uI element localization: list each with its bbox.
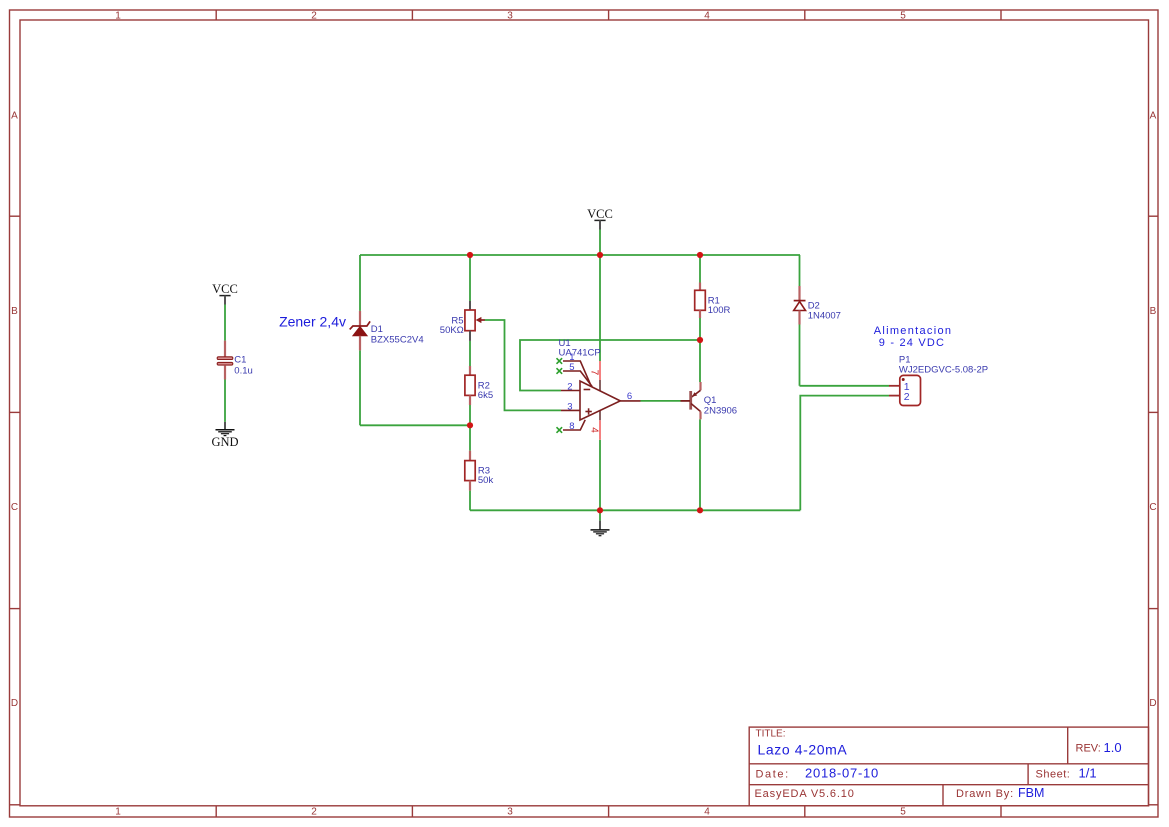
svg-text:BZX55C2V4: BZX55C2V4 — [371, 335, 424, 346]
wire bottom GND rail y=510 — [470, 509, 800, 511]
svg-text:2: 2 — [311, 807, 317, 818]
wire VCC symbol stem to rail — [599, 230, 601, 256]
svg-text:5: 5 — [900, 807, 906, 818]
svg-text:3: 3 — [567, 401, 572, 412]
svg-text:Lazo 4-20mA: Lazo 4-20mA — [758, 742, 848, 758]
op-amp U1 UA741CP — [557, 358, 641, 440]
polarity dot — [902, 378, 905, 381]
node collector/feedback — [697, 337, 703, 343]
capacitor C1 — [217, 341, 233, 422]
pin 2 lead — [561, 390, 580, 392]
svg-text:Sheet:: Sheet: — [1036, 768, 1071, 780]
pin 1 stub — [889, 385, 900, 387]
pin 6 output lead — [620, 400, 640, 402]
ground (main, below op-amp) — [591, 521, 610, 536]
node Q1/gnd rail — [697, 507, 703, 513]
emitter lead — [699, 382, 701, 390]
svg-text:GND: GND — [211, 435, 238, 449]
body — [900, 375, 921, 405]
svg-text:Q1: Q1 — [704, 395, 717, 406]
svg-text:B: B — [1150, 306, 1157, 317]
svg-text:REV:: REV: — [1076, 743, 1101, 755]
svg-text:50k: 50k — [478, 475, 494, 486]
svg-text:Date:: Date: — [756, 768, 790, 780]
svg-text:EasyEDA V5.6.10: EasyEDA V5.6.10 — [755, 788, 855, 800]
zener diode D1 — [350, 311, 370, 351]
wire ground stem — [599, 510, 601, 520]
inverting input minus — [584, 389, 591, 391]
svg-text:6: 6 — [627, 391, 632, 402]
title block — [749, 727, 1148, 806]
pin 5 lead — [563, 371, 592, 387]
svg-text:2: 2 — [904, 391, 910, 403]
svg-text:A: A — [11, 111, 18, 122]
svg-text:FBM: FBM — [1018, 786, 1044, 800]
wire opamp V+ pin7 from rail — [599, 255, 601, 361]
svg-text:0.1u: 0.1u — [234, 365, 253, 376]
wire opamp V- pin4 to gnd rail — [599, 440, 601, 511]
svg-text:2: 2 — [311, 11, 317, 22]
no-connect X pin 8 — [557, 427, 563, 433]
svg-text:5: 5 — [569, 362, 574, 373]
wire D1 corner to R2/R3 junction — [360, 424, 470, 426]
svg-text:1: 1 — [115, 11, 121, 22]
connector P1 — [889, 375, 921, 405]
node R2/R3 divider — [467, 422, 473, 428]
svg-text:1/1: 1/1 — [1079, 766, 1097, 781]
svg-text:1N4007: 1N4007 — [808, 311, 841, 322]
svg-text:3: 3 — [507, 807, 513, 818]
node VCC/top rail — [597, 252, 603, 258]
svg-text:2N3906: 2N3906 — [704, 406, 737, 417]
R5 wiper arrow — [479, 319, 485, 321]
svg-text:7: 7 — [588, 370, 599, 376]
svg-text:4: 4 — [704, 11, 710, 22]
pin 2 stub — [889, 395, 900, 397]
transistor Q1 2N3906 — [681, 382, 701, 419]
resistor R1 — [695, 283, 706, 319]
triangle body — [580, 381, 620, 420]
svg-text:D: D — [11, 698, 18, 709]
power flag VCC (C1 branch) — [212, 282, 238, 341]
svg-text:D: D — [1149, 698, 1156, 709]
svg-text:TITLE:: TITLE: — [756, 729, 786, 740]
svg-text:5: 5 — [900, 11, 906, 22]
emitter arrow — [692, 392, 697, 396]
svg-text:A: A — [1150, 111, 1157, 122]
svg-text:C1: C1 — [234, 355, 246, 366]
potentiometer R5 — [465, 301, 485, 341]
pin 1 lead — [563, 361, 591, 385]
power flag VCC (top center) — [587, 207, 613, 230]
svg-text:VCC: VCC — [587, 207, 613, 221]
wire P1 pin2 to gnd rail — [800, 396, 889, 511]
svg-text:3: 3 — [507, 11, 513, 22]
svg-text:50KΩ: 50KΩ — [440, 325, 464, 336]
base bar — [689, 391, 692, 410]
svg-text:C: C — [1149, 502, 1156, 513]
resistor R3 — [465, 451, 475, 491]
svg-text:4: 4 — [588, 427, 599, 433]
svg-text:1: 1 — [115, 807, 121, 818]
wire feedback pin2 to collector node — [520, 340, 700, 391]
node gnd stem — [597, 507, 603, 513]
base lead — [681, 400, 691, 402]
svg-text:2: 2 — [567, 381, 572, 392]
diode D2 — [794, 286, 806, 325]
wire opamp output to Q1 base — [641, 400, 681, 402]
svg-text:100R: 100R — [708, 305, 731, 316]
svg-text:4: 4 — [704, 807, 710, 818]
svg-text:Zener 2,4v: Zener 2,4v — [279, 314, 346, 330]
svg-text:VCC: VCC — [212, 282, 238, 296]
wires — [360, 230, 889, 521]
no-connect X pin 1 — [557, 358, 563, 364]
node R5/top rail — [467, 252, 473, 258]
wire D2 branch — [799, 255, 801, 286]
junction node dots — [467, 252, 703, 513]
svg-text:WJ2EDGVC-5.08-2P: WJ2EDGVC-5.08-2P — [899, 365, 988, 376]
pin 4 lead (V-) — [599, 410, 601, 420]
svg-text:8: 8 — [569, 421, 574, 432]
svg-text:2018-07-10: 2018-07-10 — [805, 766, 879, 781]
wire R5 wiper to op-amp pin 3 — [485, 320, 562, 410]
svg-text:UA741CP: UA741CP — [559, 348, 601, 359]
ground GND (C1 branch) — [216, 422, 235, 436]
svg-text:D1: D1 — [371, 324, 383, 335]
wire D2 to P1 pin1 — [800, 385, 890, 387]
collector lead — [691, 404, 701, 412]
svg-text:Alimentacion: Alimentacion — [874, 325, 953, 337]
resistor R2 — [465, 366, 475, 405]
pin 3 lead — [561, 409, 580, 411]
wire R5 branch — [469, 255, 471, 301]
svg-text:9 - 24 VDC: 9 - 24 VDC — [879, 337, 945, 349]
node R1/top rail — [697, 252, 703, 258]
pin 7 lead (V+) — [599, 361, 601, 380]
svg-text:Drawn By:: Drawn By: — [956, 788, 1014, 800]
wire D1 branch vertical — [359, 255, 361, 311]
svg-text:B: B — [11, 306, 18, 317]
svg-text:C: C — [11, 502, 18, 513]
wire top VCC rail y=255 — [360, 254, 800, 256]
svg-text:6k5: 6k5 — [478, 390, 493, 401]
non-inverting input plus — [585, 411, 591, 413]
no-connect X pin 5 — [557, 368, 563, 374]
wire R1 branch — [699, 255, 701, 283]
pin 8 lead — [563, 420, 585, 430]
svg-text:1.0: 1.0 — [1104, 740, 1122, 755]
